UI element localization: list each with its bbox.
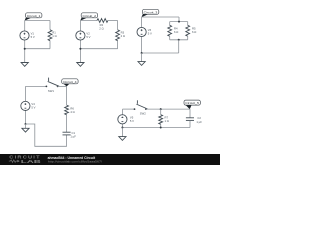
wire left upper c4 [25, 86, 27, 101]
ground c1 [21, 63, 28, 67]
resistor R5 [186, 25, 197, 36]
svg-text:5 V: 5 V [148, 32, 152, 36]
capacitor C2 [186, 116, 202, 124]
wire left lower c2 [79, 40, 81, 49]
svg-text:R3: R3 [121, 31, 125, 35]
svg-text:R2: R2 [100, 23, 104, 27]
svg-text:Circuit_2: Circuit_2 [83, 14, 97, 18]
wire top rail c3 [142, 16, 179, 18]
svg-text:6 Ω: 6 Ω [174, 30, 178, 34]
svg-text:R5: R5 [192, 27, 196, 31]
wire ground stem c1 [24, 49, 26, 63]
svg-text:1 µF: 1 µF [70, 134, 76, 138]
wire bottom rail c1 [25, 48, 50, 50]
junction dot top c3 [178, 21, 180, 23]
svg-text:SW1: SW1 [48, 89, 54, 93]
wire bottom rail c5 [122, 127, 190, 129]
voltage source V3 [137, 27, 152, 36]
svg-text:V2: V2 [86, 32, 90, 36]
junction dot c3 [141, 52, 143, 54]
wire right lower c1 [49, 41, 51, 49]
wire bottom rail c3 [142, 52, 179, 54]
label box Circuit_5 [184, 100, 200, 109]
svg-text:4 Ω: 4 Ω [70, 110, 74, 114]
logo zigzag [9, 160, 17, 163]
wire right upper c1 [49, 21, 51, 30]
voltage source V1 [20, 31, 35, 40]
wire top rail left c2 [80, 20, 97, 22]
wire ground stem c3 [141, 53, 143, 62]
label box Circuit_3 [141, 9, 158, 17]
wire top rail left c4 [26, 85, 47, 87]
wire drop to box c3 [178, 17, 180, 22]
wire ground stem c5 [121, 128, 123, 137]
wire dogleg c4 [26, 124, 67, 146]
resistor R2 [97, 19, 108, 31]
resistor R1 [48, 30, 57, 41]
wire left upper c5 [122, 109, 124, 115]
capacitor C1 [63, 131, 77, 139]
svg-text:V3: V3 [148, 28, 152, 32]
svg-text:C1: C1 [72, 131, 76, 135]
wire ground stem c4 [25, 124, 27, 128]
svg-text:5 V: 5 V [31, 35, 35, 39]
wire C2 bottom lead [189, 121, 191, 128]
svg-text:Circuit_3: Circuit_3 [144, 10, 158, 14]
junction dot bottom box c3 [178, 39, 180, 41]
junction dot c4 [25, 123, 27, 125]
switch SW1 [46, 78, 60, 93]
wire top rail left c5 [123, 108, 135, 110]
svg-text:5 V: 5 V [86, 35, 90, 39]
wire bottom rail c2 [80, 48, 117, 50]
junction dot c1 [24, 48, 26, 50]
junction dot c2 [79, 48, 81, 50]
junction dot c5 [121, 127, 123, 129]
svg-text:5 V: 5 V [130, 119, 134, 123]
wire left lower c4 [25, 110, 27, 124]
svg-text:V1: V1 [31, 32, 35, 36]
wire R5 bottom lead [187, 36, 189, 40]
svg-text:SW2: SW2 [140, 112, 146, 116]
wire R4 top lead [169, 22, 171, 26]
junction dot R7 top [160, 108, 162, 110]
voltage source V4 [21, 101, 36, 110]
wire top rail c1 [25, 20, 50, 22]
wire right upper c2 [117, 21, 119, 30]
label box Circuit_2 [80, 13, 97, 21]
svg-text:R1: R1 [52, 31, 56, 35]
voltage source V5 [118, 115, 134, 124]
ground c2 [77, 63, 84, 67]
wire R7 bottom lead [160, 124, 162, 128]
svg-text:1 Ω: 1 Ω [165, 119, 169, 123]
svg-text:Circuit_5: Circuit_5 [185, 101, 199, 105]
wire left lower c1 [24, 40, 26, 49]
resistor R7 [159, 115, 169, 125]
svg-text:LAB: LAB [21, 159, 41, 164]
svg-text:2 Ω: 2 Ω [99, 27, 103, 31]
svg-text:V5: V5 [130, 115, 134, 119]
wire drop from box c3 [178, 40, 180, 53]
svg-text:1 Ω: 1 Ω [52, 34, 56, 38]
svg-text:5 V: 5 V [31, 106, 35, 110]
ground c4 [22, 128, 29, 132]
svg-text:2 Ω: 2 Ω [121, 34, 125, 38]
wire parallel bottom rail c3 [170, 39, 188, 41]
svg-text:http://circuitlab.com/c8fcv5aa: http://circuitlab.com/c8fcv5aaa567/ [48, 160, 102, 164]
resistor R6 [65, 105, 75, 115]
svg-text:R7: R7 [165, 116, 169, 120]
svg-text:Circuit_4: Circuit_4 [63, 80, 77, 84]
junction dot R7 bottom [160, 127, 162, 129]
wire left upper c2 [79, 21, 81, 32]
wire top rail right c2 [108, 20, 118, 22]
wire corner to C2 [189, 109, 191, 118]
svg-text:1 µF: 1 µF [196, 120, 202, 124]
wire R7 top lead [160, 109, 162, 115]
svg-text:C2: C2 [197, 116, 201, 120]
switch SW2 [134, 100, 148, 115]
wire left lower c3 [141, 37, 143, 54]
ground c3 [138, 62, 145, 66]
wire R6 to C1 [66, 114, 68, 132]
wire ground stem c2 [79, 49, 81, 63]
voltage source V2 [76, 31, 91, 40]
label box Circuit_4 [62, 79, 78, 87]
wire left upper c3 [141, 17, 143, 28]
svg-text:Circuit_1: Circuit_1 [27, 14, 41, 18]
ground c5 [119, 137, 126, 141]
svg-text:6 Ω: 6 Ω [192, 30, 196, 34]
resistor R4 [168, 25, 179, 36]
wire R4 bottom lead [169, 36, 171, 40]
wire right upper c4 [66, 86, 68, 105]
wire right lower c2 [117, 41, 119, 49]
resistor R3 [116, 30, 125, 41]
svg-text:R4: R4 [174, 27, 178, 31]
svg-text:R6: R6 [70, 106, 74, 110]
wire R5 top lead [187, 22, 189, 26]
svg-text:V4: V4 [31, 102, 35, 106]
wire top rail right c4 [58, 85, 67, 87]
label box Circuit_1 [25, 13, 42, 21]
wire left upper c1 [24, 21, 26, 32]
wire top rail mid c5 [146, 108, 190, 110]
wire parallel top rail c3 [170, 21, 188, 23]
wire left lower c5 [121, 124, 123, 128]
